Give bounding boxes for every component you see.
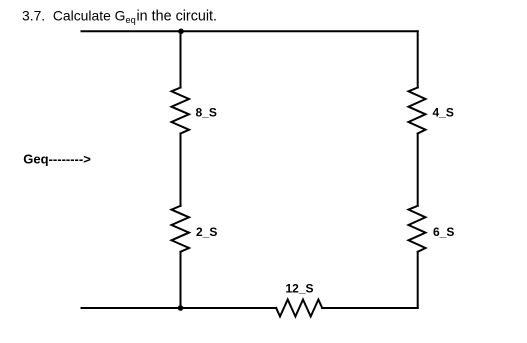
wire: bottom left segment	[82, 307, 277, 309]
wire: right branch top lead	[417, 31, 419, 87]
wire: top horizontal net	[82, 30, 418, 32]
resistor 6_S	[409, 206, 426, 252]
svg-text:Geq-------->: Geq-------->	[23, 152, 91, 167]
node: bottom junction dot	[178, 305, 184, 311]
wire: right branch middle lead	[417, 134, 419, 206]
svg-text:3.7. Calculate Geqin the circ: 3.7. Calculate Geqin the circuit.	[22, 8, 217, 26]
resistor 8_S	[172, 88, 190, 134]
svg-text:8_S: 8_S	[196, 105, 217, 119]
resistor 12_S	[276, 300, 322, 317]
svg-text:12_S: 12_S	[286, 281, 314, 295]
svg-text:4_S: 4_S	[433, 106, 454, 120]
svg-text:2_S: 2_S	[196, 225, 217, 239]
wire: left branch top lead	[180, 31, 182, 87]
wire: left branch middle lead	[180, 134, 182, 206]
wire: right branch bottom lead	[417, 252, 419, 308]
resistor 2_S	[172, 206, 190, 252]
svg-text:6_S: 6_S	[433, 225, 454, 239]
wire: left branch bottom lead	[180, 252, 182, 308]
wire: bottom right segment	[322, 307, 418, 309]
node: top junction dot	[178, 29, 184, 35]
resistor 4_S	[409, 88, 426, 134]
